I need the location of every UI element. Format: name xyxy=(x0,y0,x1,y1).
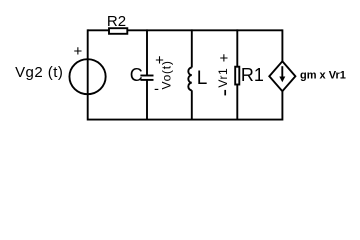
svg-text:gm x Vr1: gm x Vr1 xyxy=(300,69,346,81)
resistor R2 xyxy=(109,28,127,34)
svg-text:+: + xyxy=(220,50,229,67)
R1 minus sign xyxy=(224,90,226,96)
inductor L xyxy=(188,68,192,91)
svg-text:Vg2 (t): Vg2 (t) xyxy=(15,64,63,81)
svg-text:Vo(t): Vo(t) xyxy=(160,60,174,89)
wire capacitor branch lower xyxy=(146,80,148,121)
svg-text:-: - xyxy=(154,81,159,98)
wire top rail xyxy=(88,29,283,31)
wire dependent-source branch lower xyxy=(281,91,283,121)
svg-text:+: + xyxy=(74,43,83,60)
svg-text:L: L xyxy=(197,68,208,89)
svg-text:Vr1: Vr1 xyxy=(216,68,230,88)
resistor R1 xyxy=(235,67,239,85)
voltage source Vg2 xyxy=(69,43,105,94)
capacitor C xyxy=(140,76,153,80)
wire inductor branch lower xyxy=(191,90,193,120)
wire R1 branch xyxy=(236,29,238,120)
wire capacitor branch upper xyxy=(146,29,148,75)
wire inductor branch upper xyxy=(191,29,193,67)
wire left branch through source xyxy=(87,29,89,120)
svg-text:C: C xyxy=(130,65,143,85)
svg-text:R2: R2 xyxy=(107,13,126,30)
wire bottom rail xyxy=(88,119,283,121)
dependent current source xyxy=(269,61,295,91)
svg-text:R1: R1 xyxy=(241,65,264,85)
wire dependent-source branch upper xyxy=(281,29,283,62)
